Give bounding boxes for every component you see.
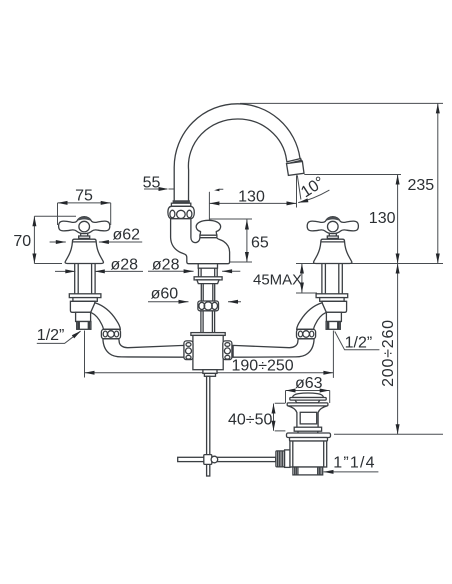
- cross left union nut: [184, 341, 193, 360]
- svg-text:1”1/4: 1”1/4: [333, 455, 375, 472]
- elbow curve: [91, 303, 121, 330]
- waste window: [300, 412, 317, 424]
- bend below union and pipe to tee: [103, 339, 184, 357]
- cross tailpiece lower: [204, 373, 215, 376]
- TEXT LAYER: [13, 174, 434, 472]
- knurl center ball: [204, 302, 212, 310]
- cross right union holes: [224, 343, 230, 360]
- svg-text:55: 55: [143, 175, 161, 192]
- dimension ø28 (center shank): [148, 269, 240, 273]
- dimension 65 (body height): [209, 219, 252, 262]
- riser collar ring: [171, 203, 190, 206]
- svg-text:190÷250: 190÷250: [232, 358, 294, 375]
- waste plug brim: [290, 398, 326, 401]
- cross tee top cap: [191, 333, 225, 336]
- waste plug neck: [295, 400, 320, 403]
- svg-text:ø28: ø28: [111, 256, 139, 273]
- svg-text:65: 65: [251, 235, 269, 252]
- cross right union nut: [223, 341, 232, 360]
- inlet collar: [285, 450, 290, 468]
- svg-text:1/2”: 1/2”: [345, 335, 373, 352]
- dimension ø60 (rosette): [148, 300, 241, 304]
- shank nut lower: [73, 298, 97, 302]
- outlet threaded tip: [77, 322, 91, 330]
- dimension 130 (spout height over deck): [396, 175, 400, 264]
- dimension 55 (spout offset): [144, 182, 223, 221]
- extension line spout top: [240, 102, 443, 104]
- svg-text:1/2”: 1/2”: [37, 327, 65, 344]
- pop-up vertical rod: [207, 376, 210, 476]
- valve body: [70, 301, 95, 312]
- knob neck band: [200, 235, 217, 238]
- leader 1/2 inch left: [37, 329, 82, 343]
- collar center ellipse: [177, 210, 186, 218]
- aerator ring lines: [287, 158, 302, 163]
- cross tee central block: [193, 335, 223, 369]
- center hex nut: [197, 280, 219, 284]
- waste spool taper: [288, 406, 328, 427]
- dimension 200÷260 (deck to waste): [396, 264, 400, 435]
- svg-text:75: 75: [75, 188, 93, 205]
- cross left union holes: [186, 343, 192, 360]
- outlet thread marks: [78, 322, 90, 330]
- handle stem: [81, 234, 88, 237]
- elbow union nut: [101, 329, 120, 339]
- center shank top section: [198, 264, 217, 269]
- svg-text:ø28: ø28: [152, 256, 180, 273]
- center shank upper walls: [199, 268, 218, 277]
- svg-text:10°: 10°: [298, 174, 328, 201]
- left cross handle: [59, 217, 110, 234]
- shank nut upper: [69, 294, 101, 298]
- knurl ridges: [278, 451, 283, 467]
- svg-text:40÷50: 40÷50: [228, 412, 272, 429]
- dimension 70 (handle height): [32, 216, 76, 263]
- handle hub: [79, 221, 90, 232]
- dimension ø28 (left shank): [55, 269, 143, 273]
- dimension 40÷50 (waste body): [272, 403, 286, 431]
- leader 1"1/4 (waste thread): [324, 470, 379, 474]
- spout gooseneck inner curve: [188, 119, 287, 203]
- waste lower flange band: [290, 438, 328, 442]
- cross tee right arm tube: [223, 345, 232, 357]
- dimension ø62 (bell diameter): [50, 240, 143, 244]
- dimension 130 (spout reach): [209, 201, 296, 205]
- cross tee left arm tube: [184, 345, 193, 357]
- center body with knob and base: [171, 219, 230, 264]
- left valve assembly: [59, 217, 184, 358]
- collar left lobe: [170, 210, 175, 218]
- knurl left ball: [199, 302, 205, 309]
- extension line deck level: [296, 263, 443, 265]
- extension line aerator tip: [304, 174, 401, 176]
- svg-text:130: 130: [369, 210, 396, 227]
- waste lower flange: [287, 433, 331, 438]
- clamp screw: [211, 456, 218, 463]
- handle top shading: [77, 217, 92, 222]
- elbow union holes: [103, 331, 118, 338]
- svg-text:235: 235: [408, 177, 435, 194]
- bell rim bead: [73, 241, 96, 243]
- bell base: [65, 239, 103, 263]
- waste cup body: [290, 441, 327, 467]
- center knurled nut: [198, 301, 219, 311]
- waste plug dome: [292, 393, 323, 398]
- dimension 235 (total height): [436, 103, 440, 263]
- dimension 45MAX (deck thickness): [296, 264, 317, 294]
- aerator body: [287, 162, 305, 176]
- tailpiece thread marks: [295, 467, 321, 475]
- leader 1/2 inch right: [333, 321, 380, 350]
- svg-text:ø60: ø60: [151, 286, 179, 303]
- valve shank walls: [75, 264, 95, 294]
- waste top flange: [287, 403, 328, 406]
- svg-text:200÷260: 200÷260: [380, 319, 397, 387]
- cross tailpiece upper: [203, 370, 217, 374]
- spout gooseneck outer curve: [174, 104, 302, 203]
- outlet neck: [76, 312, 91, 321]
- svg-text:70: 70: [13, 233, 31, 250]
- center flange: [194, 277, 222, 280]
- waste tailpiece: [293, 467, 323, 475]
- waste cup inner walls: [293, 441, 324, 467]
- waste bottom band: [294, 427, 321, 431]
- dimension ø63 (waste plug): [286, 389, 330, 404]
- knurl right ball: [212, 302, 218, 309]
- svg-text:45MAX: 45MAX: [253, 272, 302, 289]
- collar right lobe: [187, 210, 192, 218]
- waste neck step: [298, 431, 318, 433]
- DIMENSION LINES LAYER: [32, 103, 443, 474]
- right valve assembly (mirrored): [233, 217, 358, 358]
- PARTS LAYER: [59, 104, 359, 476]
- waste side inlet knurl: [276, 451, 285, 467]
- dimension 75 (handle width): [58, 201, 111, 225]
- center shank mid walls: [201, 284, 214, 301]
- extension line waste flange: [334, 433, 443, 435]
- dimension 190÷250 (inlet spacing): [85, 331, 334, 378]
- svg-text:ø62: ø62: [113, 227, 141, 244]
- riser collar body: [168, 206, 194, 218]
- horizontal lever rod: [178, 457, 276, 461]
- svg-text:ø63: ø63: [295, 375, 323, 392]
- rod clamp: [204, 455, 212, 465]
- center shank lower walls: [201, 311, 215, 333]
- water stream lines + 10 degree arc: [297, 175, 330, 207]
- handle stem collar: [79, 236, 90, 238]
- svg-text:130: 130: [238, 189, 265, 206]
- riser collar dark band: [173, 200, 190, 203]
